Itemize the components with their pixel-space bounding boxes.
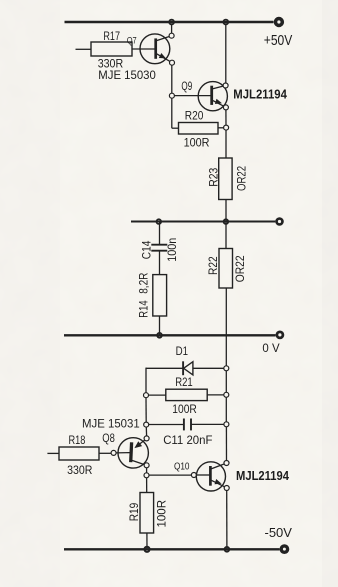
svg-text:330R: 330R	[98, 58, 124, 70]
wire output rail	[131, 221, 275, 223]
svg-text:100R: 100R	[155, 500, 169, 528]
pin C11 left node	[144, 422, 149, 427]
resistor R17	[91, 42, 132, 56]
svg-text:OR22: OR22	[234, 166, 248, 191]
wire C11 node down to Q10 collector	[225, 427, 227, 461]
pin Q8 collector (bottom)	[144, 463, 149, 468]
terminal 0V	[277, 332, 283, 338]
svg-text:8,2R: 8,2R	[137, 272, 151, 293]
junction output rail / C14	[156, 219, 161, 224]
transistor Q9 (NPN MJL21194)	[198, 82, 227, 111]
wire R21 left	[149, 394, 166, 396]
wire Q9 base node down to R20 left	[171, 98, 173, 128]
pin Q10 base	[191, 473, 196, 478]
svg-text:R21: R21	[175, 375, 193, 389]
pin Q8 emitter (top)	[144, 436, 149, 441]
pin R20 right node	[224, 125, 229, 130]
svg-text:Q7: Q7	[127, 35, 137, 46]
wire output rail to C14	[159, 222, 161, 245]
pin C11 right node	[224, 422, 229, 427]
wire left vertical D1 to R21	[145, 368, 147, 393]
wire right vertical D1-R21	[225, 371, 227, 393]
resistor R19	[140, 493, 154, 534]
wire R14 to 0V rail	[159, 316, 161, 335]
pin Q7 collector	[169, 33, 174, 38]
junction top rail / Q7 collector	[169, 20, 174, 25]
wire into R18	[47, 452, 59, 454]
svg-text:R23: R23	[206, 167, 220, 186]
wire Q9 emitter to R20 right	[225, 110, 227, 125]
pin R21 right node	[224, 392, 229, 397]
wire C11 right	[191, 423, 224, 425]
svg-text:100n: 100n	[165, 238, 179, 262]
wire -50V rail	[64, 548, 280, 550]
junction top rail / Q9 collector	[223, 20, 228, 25]
svg-text:330R: 330R	[67, 465, 92, 477]
terminal -50V	[281, 546, 287, 552]
svg-text:MJE 15031: MJE 15031	[82, 418, 140, 430]
wire left vertical R21-C11	[145, 398, 147, 422]
junction -50V rail / R19	[144, 547, 149, 552]
pin Q7 emitter	[170, 60, 175, 65]
diode D1	[183, 361, 193, 375]
wire Q9 collector to +50V rail	[225, 25, 227, 83]
resistor R18	[59, 447, 99, 460]
svg-text:MJL21194: MJL21194	[236, 469, 289, 483]
wire Q10 emitter to -50V rail	[226, 491, 228, 550]
wire Q10 base node down to R19	[146, 478, 148, 493]
svg-text:OR22: OR22	[233, 255, 247, 282]
pin Q10 emitter	[224, 486, 229, 491]
svg-text:MJE 15030: MJE 15030	[98, 70, 156, 82]
wire Q7 collector to +50V rail	[171, 25, 173, 33]
wire +50V rail	[65, 21, 274, 23]
wire Q8 collector to Q10 base node	[146, 468, 148, 473]
wire Q9 base	[174, 95, 211, 97]
capacitor C11	[184, 419, 191, 431]
svg-text:MJL21194: MJL21194	[233, 87, 287, 101]
wire 0V rail	[64, 334, 276, 336]
capacitor C14	[151, 245, 167, 251]
junction 0V rail / R14	[157, 333, 162, 338]
resistor R22	[219, 249, 233, 289]
svg-text:100R: 100R	[184, 137, 210, 149]
resistor R20	[179, 123, 219, 135]
pin Q9 base node	[169, 93, 174, 98]
wire R18 to Q8 base	[99, 452, 111, 454]
pin R21 left node	[144, 393, 149, 398]
terminal +50V	[276, 19, 283, 26]
svg-text:R18: R18	[69, 433, 86, 447]
svg-text:0 V: 0 V	[262, 343, 280, 355]
pin Q9 emitter	[223, 105, 228, 110]
wire right vertical R21-C11	[225, 397, 227, 421]
wire R23 to output rail	[225, 200, 227, 222]
transistor Q10 (NPN MJL21194)	[196, 462, 226, 491]
svg-text:R20: R20	[185, 111, 204, 123]
svg-text:R14: R14	[137, 300, 151, 318]
pin D1 right node	[224, 366, 229, 371]
svg-text:100R: 100R	[172, 404, 197, 416]
junction -50V rail / Q10 emitter	[225, 547, 230, 552]
svg-text:+50V: +50V	[264, 32, 293, 49]
wire R20 right	[218, 127, 224, 129]
wire Q7 emitter down to Q9 base node	[171, 65, 173, 93]
wire R22 bottom crossing 0V rail to D1 node	[225, 288, 227, 366]
wire R19 to -50V rail	[146, 533, 148, 549]
wire Q8 emitter up to C11 node	[145, 427, 147, 436]
resistor R21	[166, 389, 207, 400]
svg-text:D1: D1	[176, 344, 189, 358]
transistor Q7 (NPN MJE15030)	[140, 34, 172, 64]
svg-text:C11 20nF: C11 20nF	[163, 433, 212, 447]
svg-text:-50V: -50V	[265, 525, 293, 540]
wire Q10 base node to Q10 base pin	[149, 474, 191, 476]
wire C11 left	[149, 424, 184, 426]
svg-text:R17: R17	[103, 31, 120, 43]
wire output rail to R22	[225, 222, 227, 249]
svg-text:R19: R19	[127, 502, 141, 521]
wire R20 node down to R23	[225, 130, 227, 158]
pin Q8 base	[111, 450, 116, 455]
resistor R14	[153, 275, 167, 316]
wire into R17	[76, 48, 92, 50]
svg-text:Q9: Q9	[181, 81, 192, 93]
junction output rail / R23-R22	[224, 219, 229, 224]
wire R17 to Q7 base	[132, 48, 155, 50]
terminal output	[277, 219, 283, 225]
svg-text:Q8: Q8	[102, 431, 115, 445]
wire D1 cathode to left vertical	[146, 367, 183, 369]
pin Q10 base node junction	[144, 473, 149, 478]
pin Q10 collector	[224, 461, 229, 466]
wire R21 right	[207, 394, 224, 396]
wire C14 to R14	[159, 251, 161, 275]
transistor Q8 (PNP MJE15031)	[116, 438, 148, 468]
svg-text:Q10: Q10	[174, 461, 190, 472]
svg-text:C14: C14	[139, 240, 153, 259]
svg-text:R22: R22	[206, 256, 220, 275]
wire D1 anode from right vertical	[193, 367, 226, 369]
pin Q9 collector	[223, 83, 228, 88]
resistor R23	[219, 158, 232, 200]
